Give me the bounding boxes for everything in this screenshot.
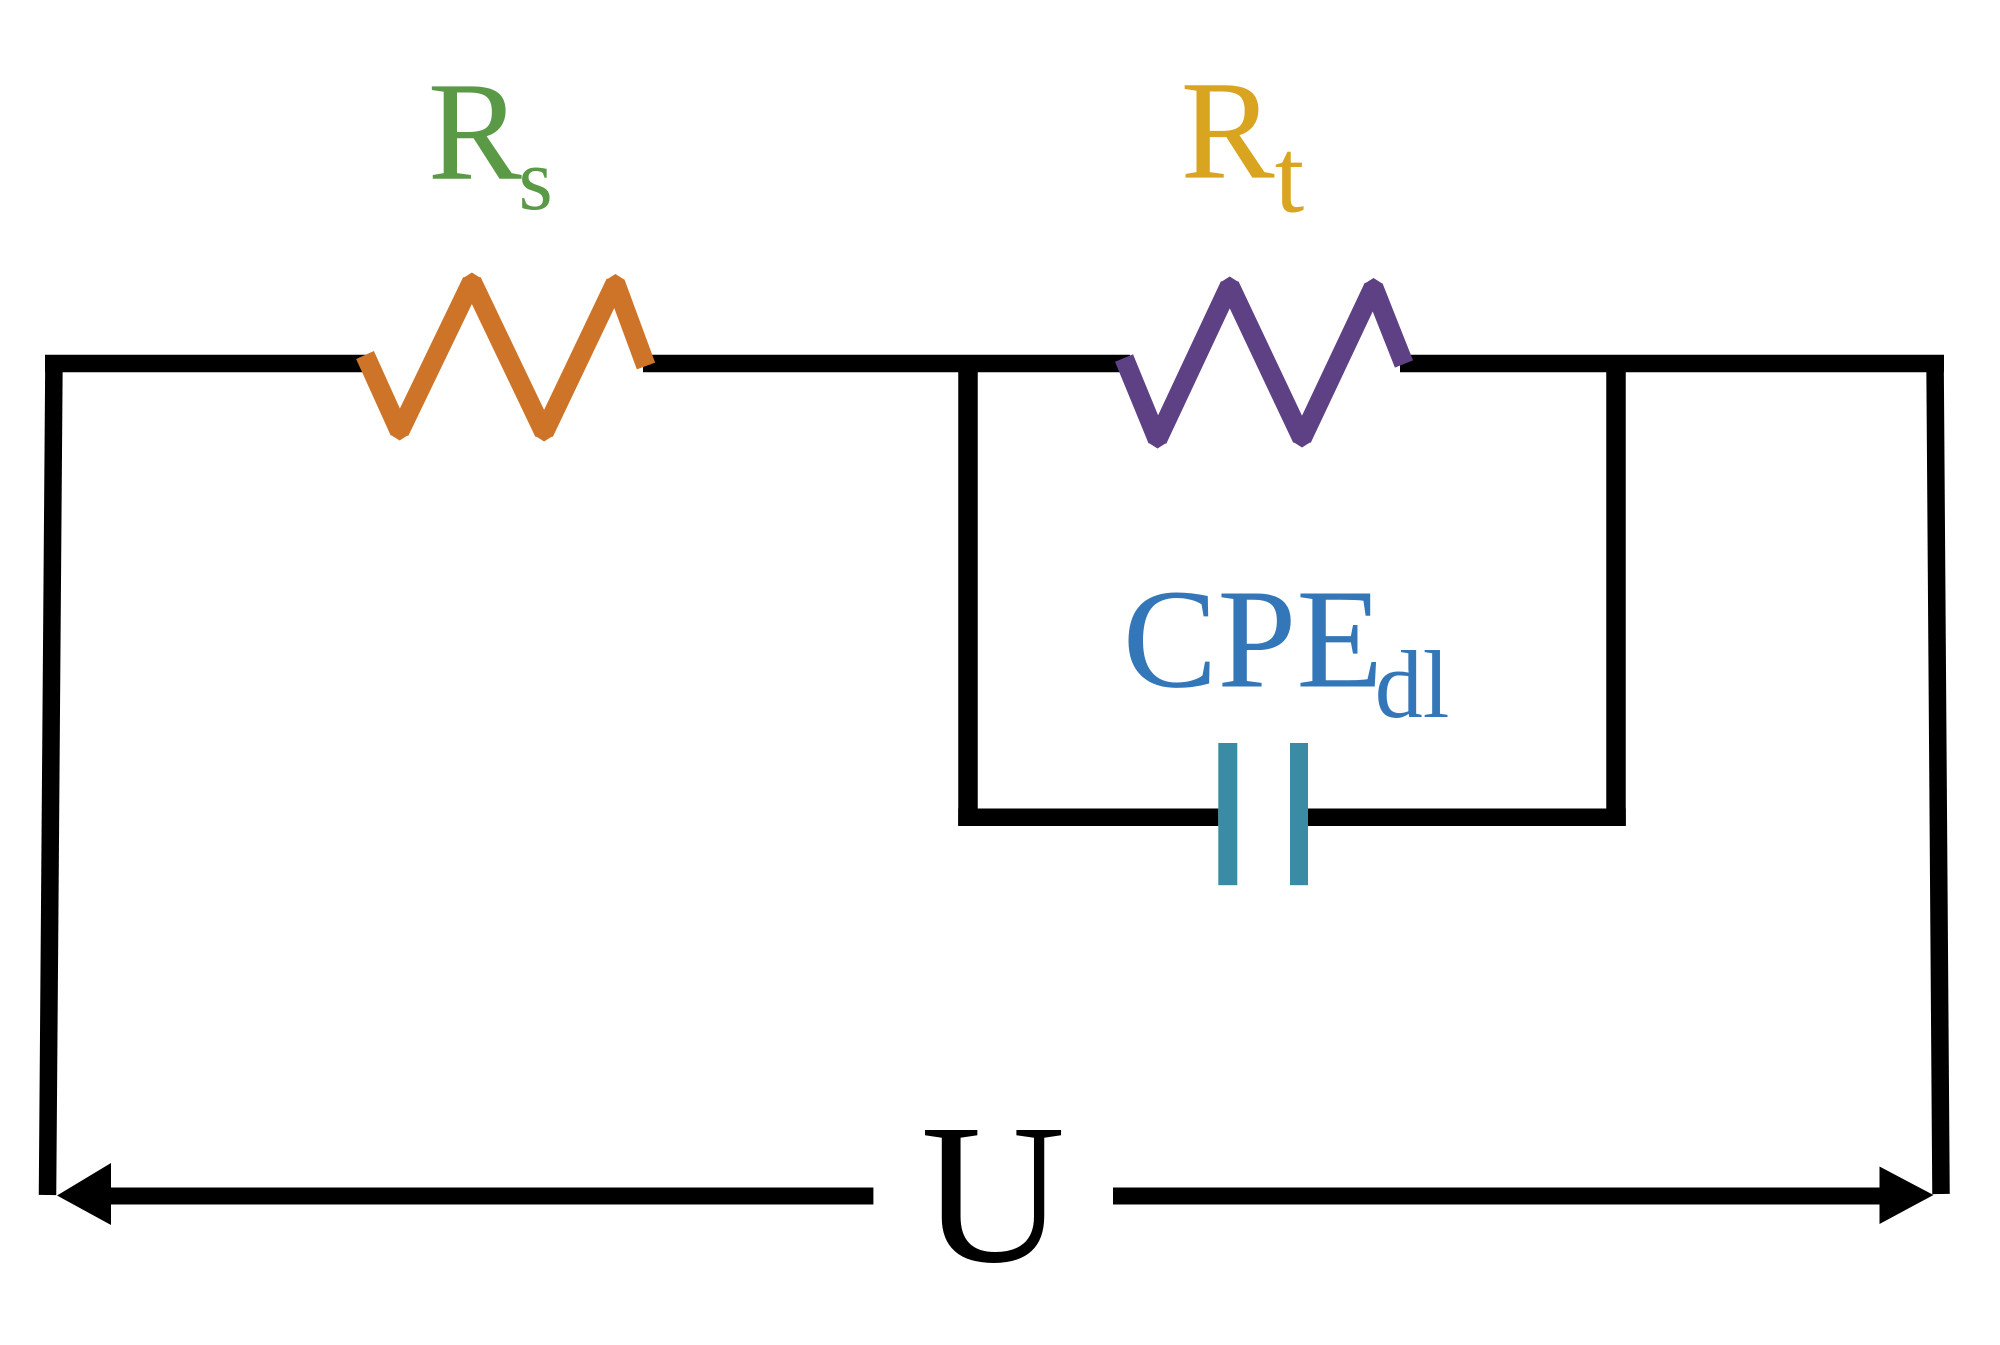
svg-text:dl: dl <box>1375 631 1450 738</box>
svg-text:s: s <box>519 132 553 229</box>
svg-text:t: t <box>1275 118 1304 235</box>
svg-text:U: U <box>921 1084 1065 1305</box>
svg-text:CPE: CPE <box>1123 560 1383 718</box>
svg-text:R: R <box>428 54 522 210</box>
svg-text:R: R <box>1181 53 1275 209</box>
